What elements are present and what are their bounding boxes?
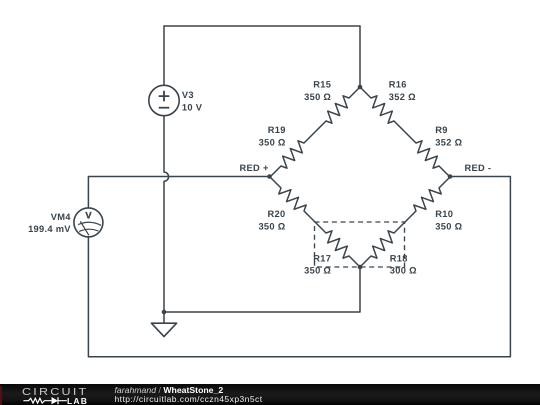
logo CIRCUIT text — [22, 387, 88, 398]
node RED+ junction dot — [267, 174, 272, 179]
svg-text:350 Ω: 350 Ω — [304, 92, 331, 102]
svg-text:R15: R15 — [313, 80, 331, 90]
footer author line — [115, 385, 224, 395]
wire ground junction to bottom node — [164, 267, 360, 312]
ground stub — [163, 312, 165, 323]
logo LAB text — [67, 396, 88, 405]
wire top node vertical — [359, 26, 361, 87]
svg-text:RED -: RED - — [465, 163, 492, 173]
resistor R15 — [315, 87, 360, 132]
svg-text:R20: R20 — [268, 209, 286, 219]
resistor R18 — [360, 222, 405, 267]
footer url line — [115, 394, 263, 404]
svg-text:R19: R19 — [268, 125, 286, 135]
node RED- junction dot — [448, 174, 453, 179]
resistor R9 — [405, 132, 450, 177]
footer red left edge — [0, 386, 2, 405]
resistor R10 — [405, 177, 450, 222]
voltmeter VM4 — [74, 208, 103, 237]
logo squiggle and diode — [0, 384, 100, 405]
svg-text:R10: R10 — [435, 209, 453, 219]
node ground junction dot — [162, 310, 167, 315]
resistor R17 — [315, 222, 360, 267]
svg-text:R17: R17 — [313, 253, 331, 263]
wire V3 bottom to ground junction with hop — [164, 116, 169, 312]
svg-text:R16: R16 — [389, 80, 407, 90]
wire top horizontal — [164, 25, 360, 27]
svg-text:R18: R18 — [390, 253, 408, 263]
svg-text:199.4 mV: 199.4 mV — [28, 224, 71, 234]
svg-text:VM4: VM4 — [51, 212, 72, 222]
svg-text:300 Ω: 300 Ω — [390, 266, 417, 276]
svg-text:350 Ω: 350 Ω — [435, 221, 462, 231]
svg-text:V3: V3 — [182, 90, 194, 100]
svg-text:10 V: 10 V — [182, 102, 203, 112]
svg-text:350 Ω: 350 Ω — [258, 221, 285, 231]
svg-text:352 Ω: 352 Ω — [435, 137, 462, 147]
footer bar — [0, 384, 540, 405]
resistor R20 — [270, 177, 315, 222]
resistor R16 — [360, 87, 405, 132]
resistor R19 — [270, 132, 315, 177]
wire VM4 bottom, bottom rail, right rail to RED- — [88, 177, 510, 357]
selection box around R17 R18 — [315, 222, 405, 267]
svg-text:R9: R9 — [435, 125, 447, 135]
voltage source V3 — [149, 85, 179, 115]
wire V3 top vertical — [163, 26, 165, 85]
svg-text:350 Ω: 350 Ω — [304, 266, 331, 276]
svg-text:V: V — [85, 211, 92, 221]
svg-text:350 Ω: 350 Ω — [259, 137, 286, 147]
node top junction dot — [358, 85, 363, 90]
node bottom junction dot — [358, 265, 363, 270]
svg-text:RED +: RED + — [240, 163, 269, 173]
wire VM4 top to RED+ — [88, 177, 269, 208]
svg-text:352 Ω: 352 Ω — [389, 92, 416, 102]
ground symbol — [151, 323, 176, 336]
